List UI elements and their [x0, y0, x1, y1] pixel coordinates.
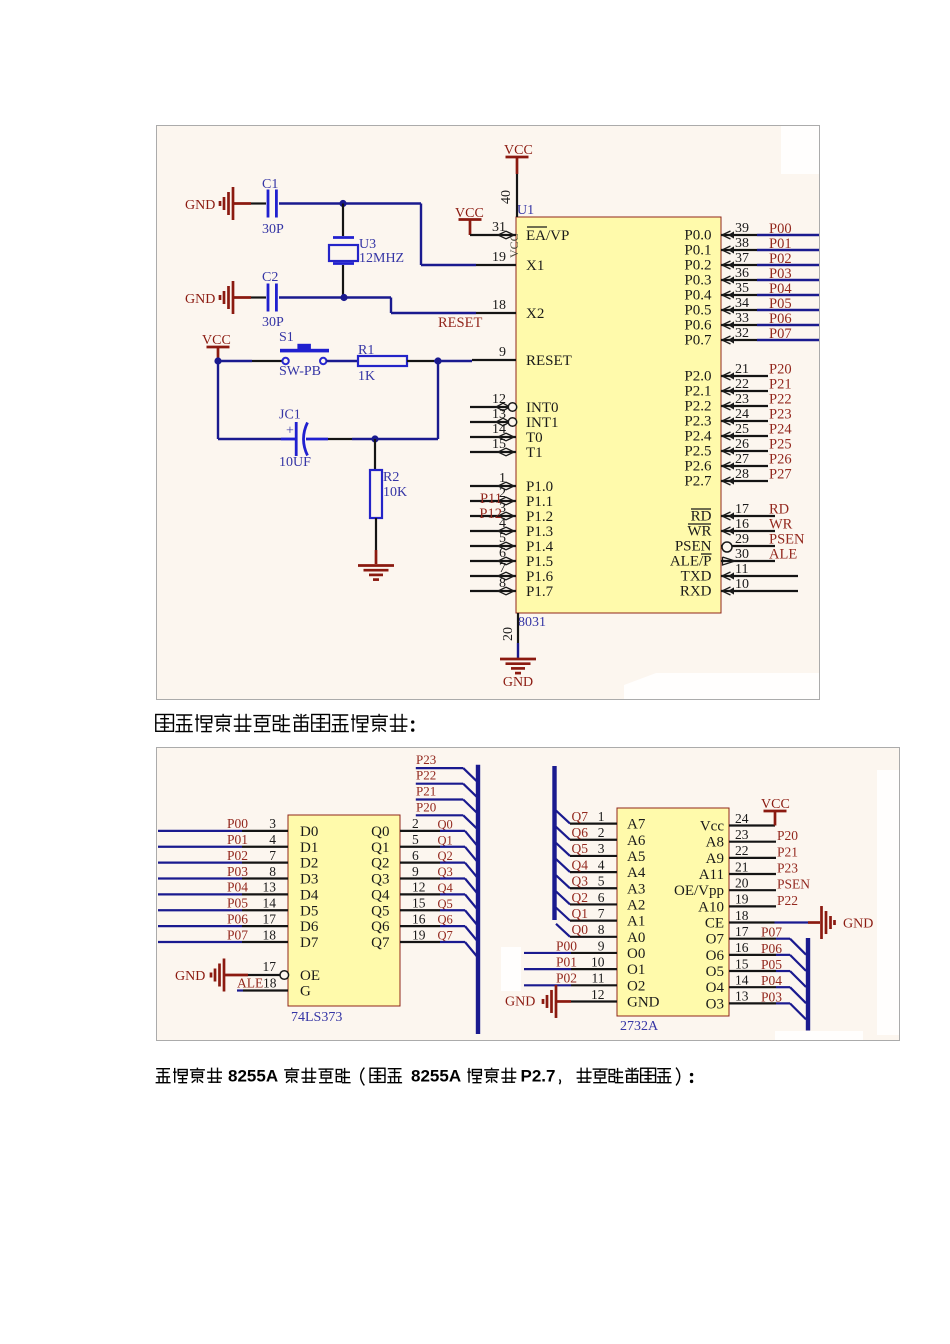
svg-text:8255A: 8255A — [228, 1067, 278, 1086]
svg-text:8255A: 8255A — [411, 1067, 461, 1086]
svg-text:P2.7: P2.7 — [521, 1067, 556, 1086]
